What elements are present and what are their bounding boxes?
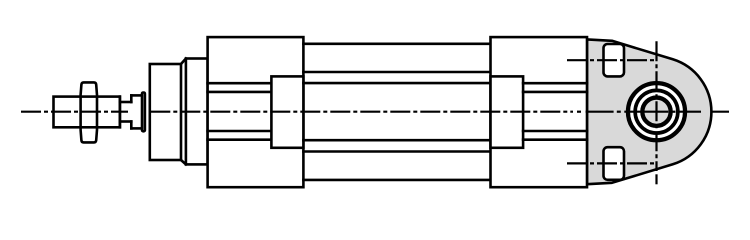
right cap cushioning sleeve line 2 xyxy=(523,91,587,94)
main centerline segment B xyxy=(150,111,573,113)
left cap cushioning sleeve line 3 xyxy=(208,130,272,133)
shoulder washer left face upper xyxy=(130,95,133,102)
clevis body xyxy=(587,39,711,184)
main centerline dot xyxy=(617,111,621,113)
tie rod axis top xyxy=(567,59,654,61)
barrel bore top xyxy=(303,82,490,85)
chamfer bell to flange (top) xyxy=(181,59,186,65)
piston rod with external thread xyxy=(54,97,120,128)
barrel outer bottom line xyxy=(303,179,490,182)
right end cap xyxy=(491,37,588,187)
barrel sensor groove top xyxy=(303,71,490,74)
shoulder washer left face lower xyxy=(130,122,133,129)
spigot bottom line xyxy=(120,120,131,123)
spigot top line xyxy=(120,101,131,104)
swivel eye bearing ring xyxy=(635,90,678,133)
left cap cushioning sleeve line 1 xyxy=(208,82,272,85)
chamfer bell to flange (bottom) xyxy=(181,160,186,164)
hex nut xyxy=(81,82,97,142)
right cap cushioning sleeve line 1 xyxy=(523,82,587,85)
swivel eye ball bore xyxy=(642,98,670,126)
left cap cushioning sleeve line 2 xyxy=(208,91,272,94)
flange disc xyxy=(186,59,208,165)
right cap boss xyxy=(491,76,524,147)
eye vertical centerline end dash xyxy=(655,174,657,184)
collar disc xyxy=(142,93,145,132)
main centerline dot xyxy=(672,111,676,113)
right cap cushioning sleeve line 4 xyxy=(523,138,587,141)
tie rod nut recess bottom xyxy=(604,147,625,180)
shoulder washer top edge xyxy=(131,94,142,97)
tie rod axis bottom xyxy=(567,162,654,164)
main centerline dash xyxy=(679,111,701,113)
eye vertical centerline xyxy=(655,41,657,171)
left cap boss xyxy=(271,76,303,147)
main centerline dot xyxy=(577,111,581,113)
right cap cushioning sleeve line 3 xyxy=(523,130,587,133)
main centerline dash through eye xyxy=(624,111,668,113)
tie rod nut recess top xyxy=(604,44,625,76)
main centerline dash xyxy=(586,111,614,113)
main centerline segment A xyxy=(21,111,128,113)
main centerline end dash xyxy=(711,111,729,113)
swivel eye outer ring xyxy=(628,83,685,140)
shoulder washer bottom edge xyxy=(131,127,142,130)
barrel outer top line xyxy=(303,42,490,45)
barrel bore bottom xyxy=(303,139,490,142)
bearing cap bell xyxy=(150,64,181,160)
left cap cushioning sleeve line 4 xyxy=(208,138,272,141)
barrel sensor groove bottom xyxy=(303,150,490,153)
rod shoulder end face xyxy=(119,97,122,128)
left end cap xyxy=(208,37,304,187)
